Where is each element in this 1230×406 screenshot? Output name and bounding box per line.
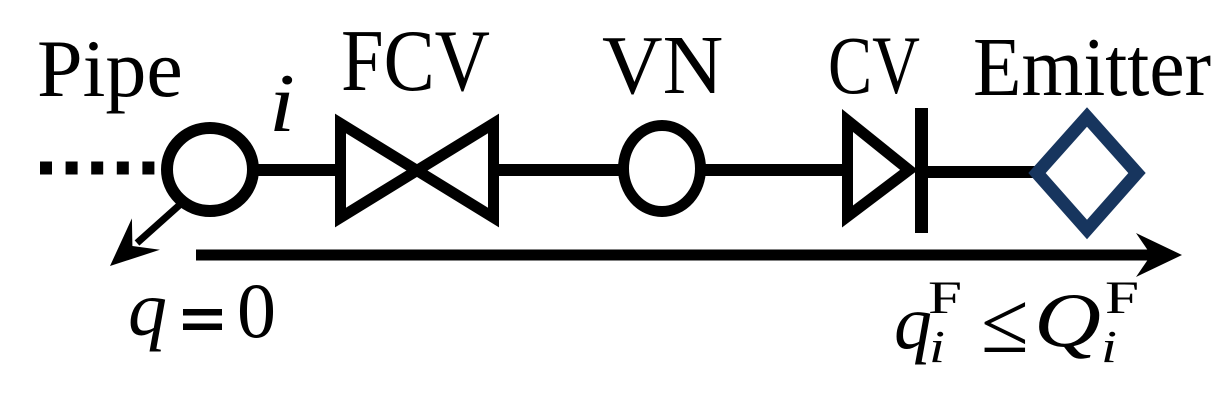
svg-text:i: i (1101, 321, 1117, 372)
svg-text:Emitter: Emitter (973, 21, 1211, 114)
svg-text:F: F (928, 272, 962, 324)
node i circle (167, 128, 253, 211)
svg-text:F: F (1105, 272, 1139, 324)
svg-text:CV: CV (828, 19, 920, 111)
pipe dashed wire (40, 162, 155, 175)
node VN circle (624, 126, 701, 212)
wire CV-Emitter (928, 166, 1040, 178)
svg-text:FCV: FCV (341, 13, 490, 110)
wire VN-CV (701, 164, 846, 176)
flow arrow head (1136, 233, 1182, 277)
demand arrow shaft (137, 201, 184, 243)
svg-text:q: q (894, 281, 932, 365)
svg-text:i: i (929, 321, 945, 372)
svg-text:q: q (128, 265, 167, 352)
svg-text:0: 0 (237, 267, 276, 354)
formula q = 0 : equals top bar (183, 309, 222, 316)
svg-text:Pipe: Pipe (37, 23, 183, 114)
svg-text:≤: ≤ (981, 274, 1029, 371)
valve FCV bowtie (341, 124, 494, 218)
svg-text:Q: Q (1034, 277, 1101, 363)
formula q = 0 : equals bottom bar (183, 324, 222, 331)
valve CV triangle (848, 121, 910, 217)
flow arrow shaft (196, 250, 1158, 261)
wire node-FCV (252, 164, 341, 176)
svg-text:i: i (269, 57, 295, 150)
demand arrow head (110, 218, 160, 266)
valve CV bar (915, 108, 928, 233)
svg-text:VN: VN (602, 19, 723, 112)
wire FCV-VN (497, 164, 622, 176)
emitter diamond (1037, 117, 1137, 230)
